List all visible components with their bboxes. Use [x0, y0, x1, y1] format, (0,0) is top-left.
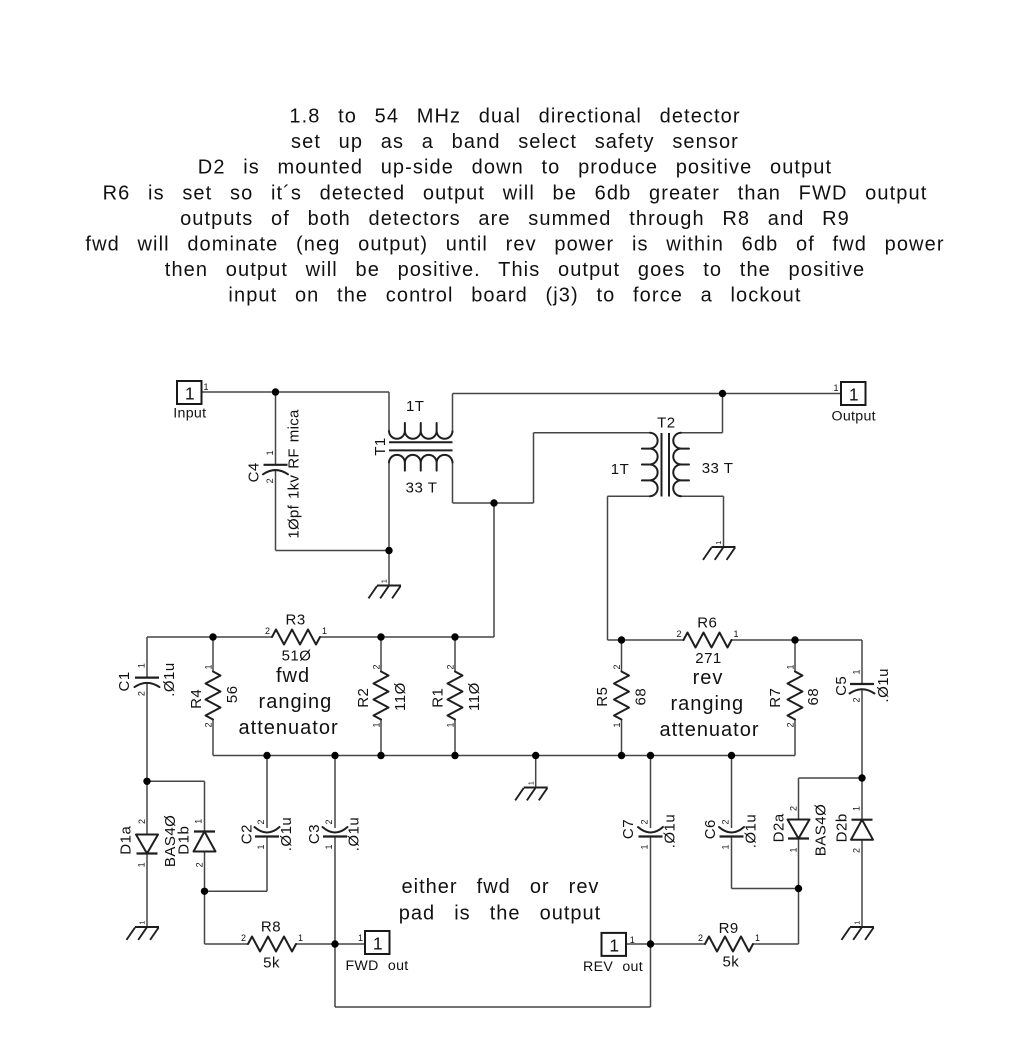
svg-text:C5: C5: [833, 676, 850, 696]
svg-text:1: 1: [136, 862, 146, 867]
svg-text:5k: 5k: [722, 954, 739, 971]
svg-text:rev: rev: [693, 667, 724, 689]
svg-text:C3: C3: [306, 824, 323, 844]
svg-text:attenuator: attenuator: [239, 717, 339, 739]
svg-text:ranging: ranging: [259, 691, 333, 713]
svg-text:1: 1: [853, 921, 862, 925]
svg-text:1: 1: [204, 664, 214, 669]
svg-text:68: 68: [805, 688, 822, 706]
svg-text:11Ø: 11Ø: [392, 682, 409, 711]
svg-text:REV out: REV out: [583, 959, 643, 975]
svg-text:D2 is mounted up-side down to: D2 is mounted up-side down to produce po…: [198, 157, 832, 179]
svg-text:68: 68: [632, 688, 649, 706]
svg-text:33 T: 33 T: [702, 460, 734, 477]
svg-text:51Ø: 51Ø: [282, 648, 312, 665]
svg-text:BAS4Ø: BAS4Ø: [813, 804, 830, 857]
svg-text:1T: 1T: [406, 398, 425, 415]
svg-text:.Ø1u: .Ø1u: [161, 662, 178, 697]
svg-text:R8: R8: [261, 919, 281, 936]
svg-text:C6: C6: [702, 819, 719, 839]
svg-text:D1a: D1a: [118, 826, 135, 855]
svg-text:2: 2: [698, 933, 703, 943]
svg-text:T1: T1: [372, 437, 389, 456]
svg-text:1: 1: [833, 383, 838, 393]
svg-text:set up as a band select safety: set up as a band select safety sensor: [291, 131, 739, 153]
svg-text:.Ø1u: .Ø1u: [661, 814, 678, 849]
svg-text:2: 2: [789, 806, 799, 811]
svg-text:1.8 to 54 MHz dual directional: 1.8 to 54 MHz dual directional detector: [289, 106, 740, 128]
svg-text:R4: R4: [188, 689, 205, 709]
svg-text:1: 1: [714, 541, 723, 545]
svg-text:R9: R9: [719, 920, 739, 937]
svg-text:5k: 5k: [263, 955, 280, 972]
svg-text:33 T: 33 T: [406, 480, 438, 497]
svg-text:1: 1: [265, 450, 275, 455]
svg-text:D1b: D1b: [176, 826, 193, 855]
svg-text:R5: R5: [594, 687, 611, 707]
svg-text:11Ø: 11Ø: [466, 682, 483, 711]
svg-text:R7: R7: [767, 688, 784, 708]
svg-text:1: 1: [789, 847, 799, 852]
svg-text:R2: R2: [355, 688, 372, 708]
svg-text:1: 1: [138, 921, 147, 925]
svg-text:outputs of both detectors are: outputs of both detectors are summed thr…: [180, 208, 850, 230]
svg-text:input on the control board (j3: input on the control board (j3) to force…: [228, 284, 801, 306]
svg-text:2: 2: [612, 664, 622, 669]
svg-text:1: 1: [137, 663, 147, 668]
svg-text:1Øpf 1kv RF mica: 1Øpf 1kv RF mica: [286, 409, 303, 539]
svg-text:2: 2: [324, 819, 334, 824]
svg-text:1T: 1T: [611, 461, 630, 478]
svg-text:1: 1: [380, 579, 389, 583]
svg-text:D2b: D2b: [834, 813, 851, 842]
svg-text:then output will be positive.: then output will be positive. This outpu…: [165, 259, 865, 281]
svg-text:1: 1: [852, 669, 862, 674]
svg-text:2: 2: [204, 722, 214, 727]
svg-text:.Ø1u: .Ø1u: [742, 814, 759, 849]
svg-text:1: 1: [612, 722, 622, 727]
svg-text:.Ø1u: .Ø1u: [345, 817, 362, 852]
svg-text:FWD out: FWD out: [345, 958, 408, 974]
svg-text:1: 1: [322, 626, 327, 636]
svg-text:1: 1: [609, 936, 619, 956]
svg-text:C1: C1: [116, 671, 133, 691]
svg-text:R3: R3: [286, 612, 306, 629]
svg-text:ranging: ranging: [670, 693, 744, 715]
svg-text:either fwd or rev: either fwd or rev: [402, 876, 600, 898]
svg-text:1: 1: [194, 819, 204, 824]
svg-text:1: 1: [185, 384, 195, 404]
svg-text:pad is the output: pad is the output: [399, 903, 601, 925]
svg-text:Output: Output: [832, 409, 876, 425]
svg-text:R6: R6: [697, 615, 717, 632]
svg-text:1: 1: [358, 933, 363, 943]
svg-text:2: 2: [852, 697, 862, 702]
svg-text:Input: Input: [173, 406, 206, 422]
svg-text:2: 2: [446, 664, 456, 669]
svg-text:C7: C7: [620, 819, 637, 839]
svg-text:1: 1: [446, 722, 456, 727]
svg-text:1: 1: [630, 935, 635, 945]
svg-text:271: 271: [695, 650, 722, 667]
svg-text:2: 2: [852, 848, 862, 853]
svg-text:2: 2: [265, 626, 270, 636]
svg-text:1: 1: [786, 664, 796, 669]
svg-text:.Ø1u: .Ø1u: [278, 817, 295, 852]
svg-text:2: 2: [265, 478, 275, 483]
svg-text:2: 2: [137, 691, 147, 696]
svg-text:1: 1: [373, 934, 383, 954]
svg-text:C2: C2: [238, 824, 255, 844]
svg-text:1: 1: [849, 385, 859, 405]
svg-text:1: 1: [526, 781, 535, 785]
svg-text:2: 2: [372, 664, 382, 669]
svg-text:1: 1: [852, 806, 862, 811]
svg-text:1: 1: [256, 844, 266, 849]
svg-text:1: 1: [640, 844, 650, 849]
svg-text:fwd will dominate (neg output): fwd will dominate (neg output) until rev…: [85, 233, 944, 255]
svg-text:56: 56: [224, 685, 241, 703]
svg-text:2: 2: [256, 819, 266, 824]
svg-text:1: 1: [204, 382, 209, 392]
svg-text:2: 2: [195, 862, 205, 867]
svg-text:2: 2: [137, 819, 147, 824]
svg-text:1: 1: [721, 844, 731, 849]
svg-text:R6 is set so it´s detected out: R6 is set so it´s detected output will b…: [103, 182, 928, 204]
svg-text:fwd: fwd: [276, 665, 310, 687]
svg-text:1: 1: [755, 933, 760, 943]
svg-text:1: 1: [298, 933, 303, 943]
svg-text:1: 1: [734, 629, 739, 639]
svg-text:2: 2: [241, 933, 246, 943]
svg-text:attenuator: attenuator: [659, 719, 759, 741]
svg-text:R1: R1: [429, 688, 446, 708]
svg-text:T2: T2: [657, 415, 676, 432]
svg-text:2: 2: [786, 722, 796, 727]
svg-text:2: 2: [676, 629, 681, 639]
svg-text:1: 1: [372, 722, 382, 727]
svg-text:.Ø1u: .Ø1u: [875, 668, 892, 703]
svg-text:C4: C4: [245, 462, 262, 482]
svg-text:D2a: D2a: [770, 813, 787, 842]
svg-text:2: 2: [640, 819, 650, 824]
svg-text:1: 1: [324, 844, 334, 849]
svg-text:2: 2: [721, 819, 731, 824]
